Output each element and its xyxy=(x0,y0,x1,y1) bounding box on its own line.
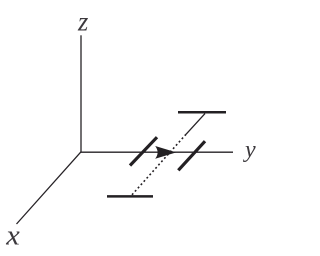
current direction arrowhead on y-axis xyxy=(155,146,176,159)
svg-text:y: y xyxy=(243,137,256,163)
x-axis xyxy=(17,152,82,224)
element bar top-right (parallel to y) xyxy=(178,111,226,114)
axis line through elements: dotted part xyxy=(132,134,186,195)
z-axis xyxy=(80,35,82,152)
slash mark left (wire end tick) xyxy=(130,137,157,165)
y-axis xyxy=(80,151,233,153)
element bar bottom-left (parallel to y) xyxy=(107,195,153,198)
axis line through elements: solid upper part xyxy=(186,114,205,135)
svg-text:x: x xyxy=(5,221,20,252)
svg-text:z: z xyxy=(77,7,89,37)
slash mark right (wire end tick) xyxy=(178,141,205,170)
